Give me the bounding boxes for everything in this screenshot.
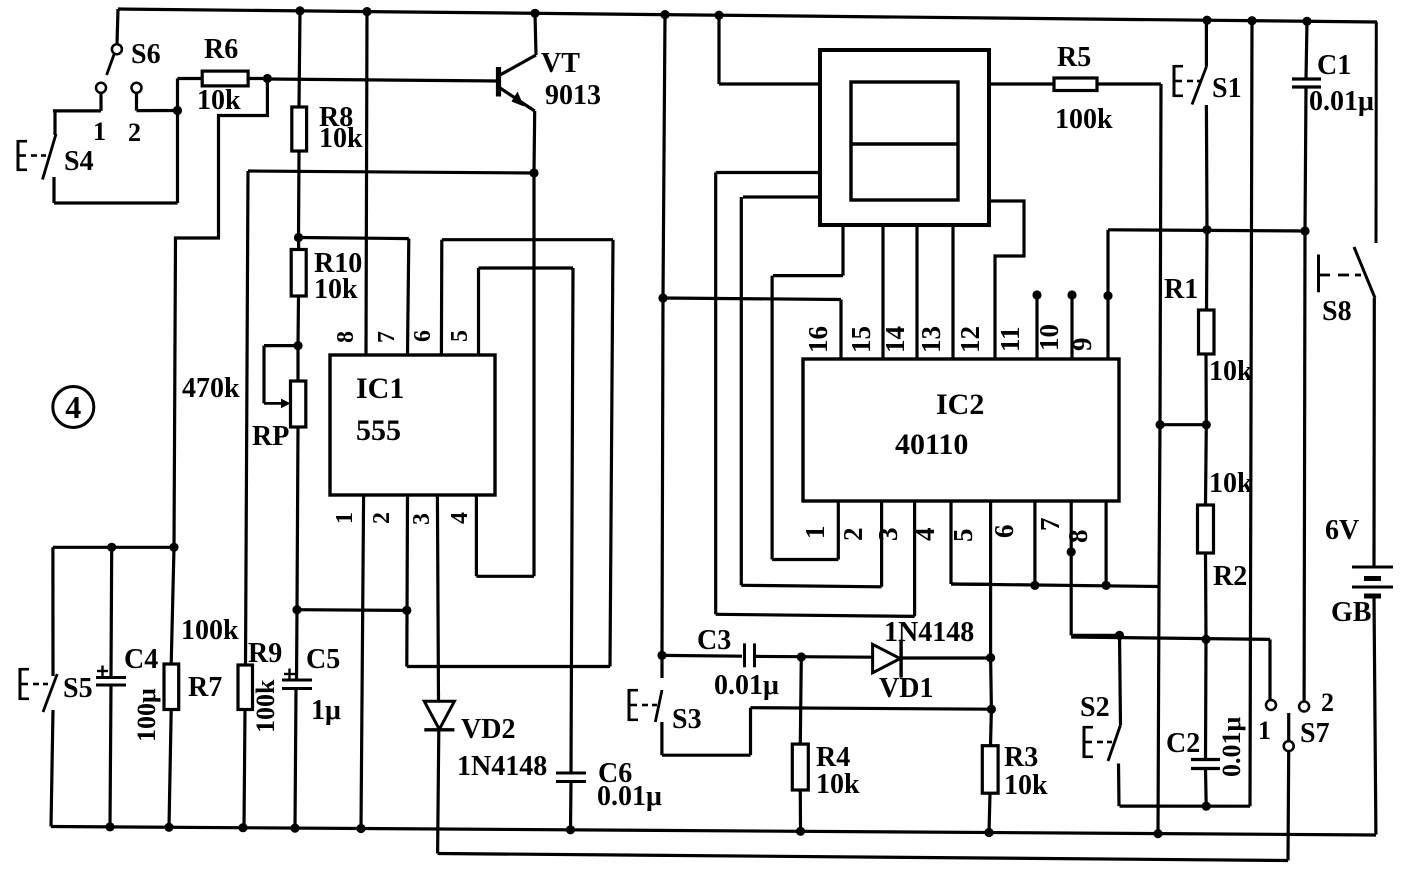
svg-text:100k: 100k	[1055, 104, 1113, 135]
svg-text:15: 15	[846, 326, 876, 353]
svg-text:1: 1	[1258, 716, 1271, 745]
svg-text:1μ: 1μ	[311, 695, 341, 726]
svg-text:C5: C5	[306, 644, 340, 675]
svg-text:R6: R6	[204, 34, 238, 65]
svg-text:14: 14	[880, 326, 910, 353]
svg-text:10k: 10k	[319, 123, 363, 154]
svg-text:S2: S2	[1080, 692, 1110, 723]
svg-text:6V: 6V	[1325, 515, 1359, 546]
svg-text:16: 16	[803, 326, 833, 353]
svg-text:1N4148: 1N4148	[884, 617, 974, 648]
svg-text:GB: GB	[1331, 597, 1371, 628]
svg-text:5: 5	[447, 330, 473, 342]
svg-text:IC2: IC2	[936, 388, 984, 421]
svg-text:2: 2	[838, 528, 868, 542]
svg-text:12: 12	[955, 326, 985, 353]
svg-text:3: 3	[409, 513, 435, 525]
svg-text:VD2: VD2	[461, 714, 515, 745]
svg-text:C4: C4	[124, 644, 158, 675]
svg-text:100k: 100k	[251, 679, 280, 733]
svg-text:4: 4	[447, 512, 473, 524]
svg-text:4: 4	[910, 528, 940, 542]
svg-text:2: 2	[1321, 688, 1334, 717]
svg-text:S5: S5	[63, 673, 93, 704]
svg-text:0.01μ: 0.01μ	[1309, 86, 1374, 117]
svg-text:S7: S7	[1300, 718, 1330, 749]
svg-text:9013: 9013	[545, 80, 601, 111]
svg-text:10k: 10k	[816, 769, 860, 800]
svg-text:8: 8	[333, 331, 359, 343]
svg-text:3: 3	[873, 528, 903, 542]
svg-text:R2: R2	[1213, 561, 1247, 592]
svg-text:S6: S6	[131, 39, 161, 70]
svg-text:6: 6	[410, 330, 436, 342]
svg-text:1: 1	[332, 512, 358, 524]
svg-text:IC1: IC1	[356, 372, 404, 405]
svg-text:2: 2	[369, 512, 395, 524]
svg-text:RP: RP	[252, 421, 289, 452]
svg-text:R3: R3	[1004, 742, 1038, 773]
svg-text:S3: S3	[672, 704, 702, 735]
svg-text:C1: C1	[1317, 50, 1351, 81]
svg-text:10k: 10k	[197, 85, 241, 116]
svg-text:1: 1	[800, 526, 830, 540]
svg-text:10k: 10k	[314, 274, 358, 305]
svg-text:0.01μ: 0.01μ	[1217, 717, 1246, 778]
svg-text:0.01μ: 0.01μ	[597, 781, 662, 812]
svg-text:10k: 10k	[1209, 356, 1253, 387]
svg-text:1N4148: 1N4148	[457, 751, 547, 782]
svg-text:470k: 470k	[182, 373, 240, 404]
svg-text:R7: R7	[188, 672, 222, 703]
svg-text:2: 2	[128, 118, 141, 147]
svg-text:10k: 10k	[1004, 770, 1048, 801]
svg-text:100μ: 100μ	[132, 688, 161, 742]
svg-text:0.01μ: 0.01μ	[714, 670, 779, 701]
svg-text:13: 13	[916, 326, 946, 353]
svg-text:4: 4	[65, 389, 81, 425]
svg-text:S1: S1	[1212, 73, 1242, 104]
svg-text:R5: R5	[1057, 42, 1091, 73]
svg-text:S8: S8	[1322, 296, 1352, 327]
svg-text:R9: R9	[248, 638, 282, 669]
svg-text:5: 5	[948, 529, 978, 543]
svg-text:C3: C3	[697, 625, 731, 656]
svg-text:7: 7	[374, 331, 400, 343]
svg-text:VT: VT	[541, 48, 580, 79]
svg-text:10: 10	[1034, 324, 1064, 351]
svg-text:C2: C2	[1166, 728, 1200, 759]
svg-text:40110: 40110	[895, 428, 968, 461]
svg-text:7: 7	[1035, 518, 1065, 532]
svg-text:9: 9	[1067, 338, 1097, 352]
svg-text:R1: R1	[1164, 274, 1198, 305]
svg-text:1: 1	[93, 117, 106, 146]
svg-text:6: 6	[989, 525, 1019, 539]
svg-text:8: 8	[1063, 530, 1093, 544]
svg-text:S4: S4	[64, 146, 94, 177]
svg-text:11: 11	[995, 326, 1025, 352]
svg-text:10k: 10k	[1209, 468, 1253, 499]
svg-text:555: 555	[356, 414, 401, 447]
svg-text:VD1: VD1	[879, 673, 933, 704]
svg-text:100k: 100k	[181, 615, 239, 646]
